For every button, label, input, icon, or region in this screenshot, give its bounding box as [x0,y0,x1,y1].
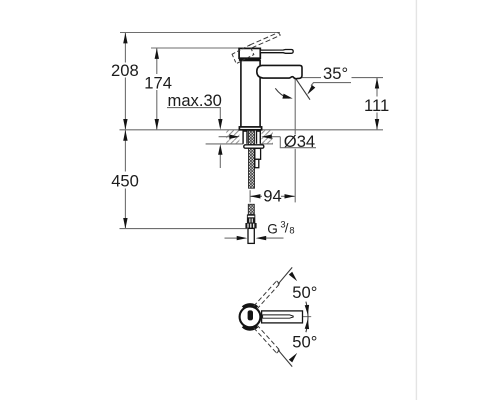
svg-text:/: / [285,220,289,235]
extension line lever top (174) [151,47,244,49]
deck bottom line left [206,143,244,145]
flex hose braid lower [248,204,254,214]
svg-text:8: 8 [289,224,294,235]
dia34 leader jog [280,137,316,148]
faucet body [241,61,260,128]
dimension 94 arrows [250,195,262,197]
aerator extension line down [294,79,296,135]
shank top ticks [243,130,247,131]
dia34 arrow left [219,136,230,138]
svg-text:G: G [267,221,278,236]
extension line top of handle (208) [120,32,280,34]
threaded shank braid [249,131,255,188]
lower 50 arrow [289,353,297,363]
hose nut G3/8 [245,223,256,228]
svg-text:50°: 50° [292,333,317,352]
hose ferrule [247,214,255,223]
svg-text:Ø34: Ø34 [284,132,315,151]
water stream line [295,78,310,100]
hose tail tube [248,228,254,243]
top view lever slot [263,315,294,318]
cap bottom band [239,58,261,61]
svg-text:174: 174 [144,73,172,92]
max.30 dimension line down [219,108,221,120]
top view body circle [240,307,261,328]
deck bottom line right [260,143,273,145]
dimension 111 line [376,78,378,97]
top view dashed lever up [254,281,280,309]
svg-text:94: 94 [263,187,281,206]
upper 50 arrow [289,272,297,282]
dashed raised lever [250,33,281,48]
svg-text:35°: 35° [323,64,348,83]
extension line spout outlet (111 top) [302,77,321,79]
35deg leader with arrow [311,83,351,86]
horseshoe mounting washer [244,145,264,148]
dimension 208 line [124,33,126,63]
max.30 underline leader [167,107,221,109]
dashed raised cap [232,45,254,64]
dimension 94 short bar [249,190,251,202]
stream swivel arc arrow [275,88,288,98]
hose-end reference line (450 bottom) [120,228,248,230]
counter top line [120,129,384,131]
deck hatching left [226,130,239,144]
base flange [239,127,261,130]
max.30 arrow up to deck bottom [219,154,221,168]
top view cartridge slot [248,310,253,320]
upper 50 extension line [278,267,292,284]
shank walls [242,130,244,143]
deck hatching right [262,130,273,144]
lower 50 extension line [278,350,292,367]
svg-text:208: 208 [111,61,139,80]
dimension 450 line [124,130,126,171]
page divider line [416,0,417,400]
stud connector step 2 [255,159,259,167]
top view dashed lever down [254,325,280,353]
body centerline at base [249,122,251,130]
dia34 arrow right [271,136,280,138]
G3/8 arrows [225,237,238,239]
arc arrowheads at centerline [305,305,309,315]
swing arc [306,302,308,333]
svg-text:450: 450 [111,171,139,190]
svg-text:50°: 50° [292,283,317,302]
lever handle [260,50,293,54]
dimension 174 line [156,48,158,74]
top view lever [262,311,303,323]
svg-text:111: 111 [364,96,389,115]
handle cap [239,48,260,58]
top view centerline [253,316,311,318]
stud connector step 1 [255,148,261,159]
spout [257,65,302,78]
